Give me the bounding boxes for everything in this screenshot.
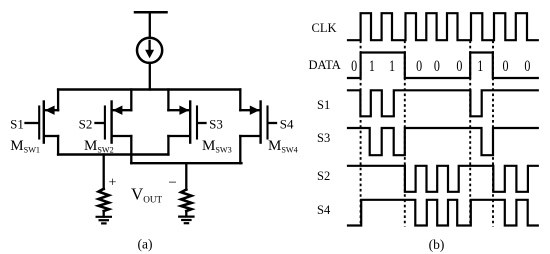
output rail wire plus (node VOUT+) [58, 153, 168, 155]
svg-text:MSW3: MSW3 [202, 138, 232, 155]
transistor M_SW1 [26, 90, 59, 143]
M_SW4 gate lead [268, 122, 276, 124]
transistor M_SW3 [168, 90, 205, 143]
transistor M_SW4 [240, 90, 276, 143]
M_SW1 drain wire [45, 135, 58, 137]
M_SW4 gate bar [266, 107, 268, 139]
waveform DATA [348, 53, 538, 79]
M_SW2 drain wire [113, 135, 132, 137]
svg-text:VOUT: VOUT [131, 185, 163, 205]
waveform S4 [348, 200, 538, 226]
ground G1 [97, 217, 111, 224]
M_SW3 gate bar [196, 107, 198, 139]
svg-text:CLK: CLK [312, 21, 337, 35]
M_SW1 source arrow [45, 106, 55, 115]
time marker t3 dotted line [469, 41, 471, 227]
wire R2 to ground [185, 211, 187, 216]
svg-text:S4: S4 [317, 203, 331, 217]
M_SW3 drain drop wire [167, 136, 169, 155]
svg-text:(b): (b) [429, 237, 445, 252]
M_SW2 drain drop wire [130, 136, 132, 163]
svg-text:S3: S3 [317, 131, 330, 145]
M_SW2 source arrow [113, 106, 123, 115]
svg-text:0: 0 [524, 59, 530, 76]
M_SW3 drain wire [168, 135, 189, 137]
M_SW4 source wire [240, 109, 259, 111]
ground G2 [179, 217, 193, 224]
M_SW3 source drop wire [167, 90, 169, 111]
time marker t2 dotted line [404, 41, 406, 227]
M_SW4 channel bar [259, 102, 261, 143]
time marker t4 dotted line [492, 41, 494, 227]
resistor R1 top lead wire [103, 155, 105, 190]
svg-text:+: + [108, 176, 116, 191]
svg-text:S1: S1 [10, 116, 24, 131]
output rail wire minus (node VOUT-) [131, 162, 241, 164]
wire supply to current source [149, 12, 151, 38]
svg-text:S2: S2 [79, 116, 93, 131]
svg-text:1: 1 [477, 59, 483, 76]
svg-text:MSW2: MSW2 [84, 138, 114, 155]
svg-text:MSW1: MSW1 [10, 138, 40, 155]
M_SW1 gate bar [38, 107, 40, 139]
svg-text:DATA: DATA [309, 58, 341, 72]
resistor R1 [99, 189, 109, 211]
resistor R2 top lead wire [185, 163, 187, 190]
M_SW2 source wire [113, 109, 132, 111]
M_SW2 gate bar [104, 107, 106, 139]
waveform CLK [348, 13, 538, 40]
svg-text:MSW4: MSW4 [268, 138, 298, 155]
M_SW2 channel bar [110, 102, 112, 143]
waveform S3 [348, 128, 538, 155]
svg-text:0: 0 [416, 59, 422, 76]
M_SW2 source drop wire [130, 90, 132, 111]
svg-text:0: 0 [351, 59, 357, 76]
svg-text:S3: S3 [209, 116, 223, 131]
M_SW3 gate lead [198, 122, 206, 124]
time marker t1 dotted line [360, 41, 362, 227]
svg-text:(a): (a) [138, 237, 153, 252]
svg-text:0: 0 [456, 59, 462, 76]
waveform S2 [348, 166, 538, 192]
M_SW2 gate lead [96, 122, 105, 124]
svg-text:1: 1 [389, 59, 395, 76]
wire current source to source rail [149, 63, 151, 90]
svg-text:0: 0 [434, 59, 440, 76]
M_SW3 channel bar [189, 102, 191, 143]
M_SW1 source drop wire [57, 90, 59, 111]
svg-text:0: 0 [502, 59, 508, 76]
M_SW4 source drop wire [239, 90, 241, 111]
M_SW1 source wire [45, 109, 58, 111]
svg-text:S4: S4 [280, 116, 294, 131]
waveform S1 [348, 90, 538, 116]
svg-text:1: 1 [369, 59, 375, 76]
M_SW1 channel bar [43, 102, 45, 143]
M_SW3 source arrow [179, 106, 189, 115]
M_SW3 source wire [168, 109, 189, 111]
resistor R2 [181, 190, 191, 212]
svg-text:S2: S2 [317, 169, 330, 183]
svg-text:S1: S1 [317, 98, 330, 112]
wire R1 to ground [103, 211, 105, 217]
supply bar [135, 11, 167, 14]
M_SW4 source arrow [250, 106, 260, 115]
M_SW1 gate lead [26, 122, 39, 124]
transistor M_SW2 [96, 90, 132, 143]
M_SW1 drain drop wire [57, 136, 59, 155]
current source I1 [137, 38, 162, 63]
M_SW4 drain wire [240, 135, 259, 137]
svg-text:−: − [168, 175, 176, 191]
source rail wire (common source node) [58, 88, 240, 90]
M_SW4 drain drop wire [239, 136, 241, 163]
